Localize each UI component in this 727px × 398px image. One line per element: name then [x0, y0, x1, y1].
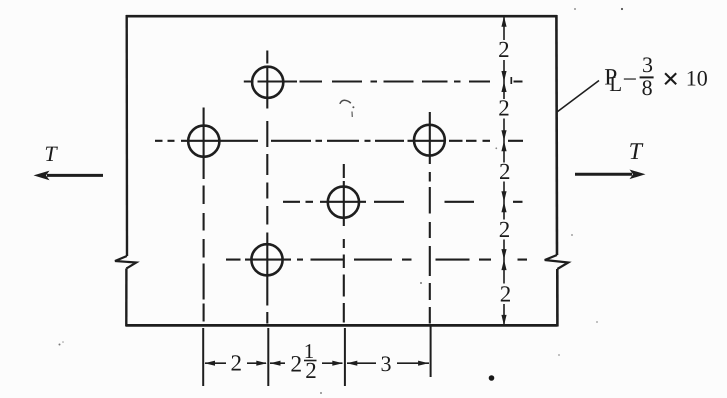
- hole 5 circle: [251, 244, 282, 275]
- hole 1 circle: [252, 67, 283, 98]
- plate outline top edge: [126, 15, 557, 18]
- right dim arrows at row 3: [501, 191, 506, 202]
- break symbol left edge: [115, 256, 136, 269]
- centerline horizontal through hole 1: [244, 80, 523, 82]
- svg-text:–: –: [623, 64, 636, 90]
- svg-text:T: T: [629, 139, 644, 165]
- plate outline left edge upper: [125, 15, 128, 256]
- stray squiggle tail dash: [351, 112, 353, 118]
- svg-text:2: 2: [498, 37, 510, 62]
- svg-text:3: 3: [381, 351, 392, 376]
- stray squiggle dot: [352, 106, 354, 108]
- right dimension line segments: [503, 16, 505, 325]
- centerline vertical column through hole 2: [203, 108, 205, 322]
- hole 4 circle: [328, 187, 359, 218]
- leader line to plate label: [558, 81, 600, 112]
- plate label PL - 3/8 x 10: [604, 52, 708, 100]
- svg-text:2: 2: [499, 159, 511, 184]
- small specks: [59, 344, 61, 346]
- centerline horizontal through hole 5: [226, 259, 527, 261]
- bottom dim arrows segment 2: [205, 361, 216, 366]
- svg-text:2: 2: [498, 96, 510, 121]
- right force arrow T: [575, 139, 646, 179]
- break symbol right edge: [545, 255, 569, 269]
- right dim arrow up to top edge: [501, 16, 506, 27]
- bottom dimension line segments: [205, 362, 429, 364]
- fraction bar of 1/2: [304, 360, 317, 362]
- svg-text:8: 8: [642, 75, 653, 100]
- svg-text:2: 2: [500, 282, 512, 307]
- multiplication sign: [665, 73, 676, 84]
- bottom label 2 1/2: [290, 339, 316, 383]
- right dimension labels 2 x5: [498, 37, 511, 307]
- svg-text:L: L: [609, 72, 622, 96]
- svg-text:2: 2: [231, 350, 243, 375]
- centerline horizontal through hole 4: [283, 201, 523, 203]
- centerline vertical column through hole 3: [429, 112, 431, 324]
- svg-text:3: 3: [642, 52, 653, 77]
- right dim arrows at row 2: [501, 130, 506, 141]
- plate outline right edge lower: [556, 269, 559, 327]
- stray dot bottom right: [489, 375, 495, 381]
- centerline vertical column through hole 4: [343, 164, 345, 323]
- left force arrow T: [34, 141, 104, 180]
- svg-text:10: 10: [686, 66, 708, 91]
- svg-text:2: 2: [305, 358, 317, 383]
- right dim arrows at row 1: [501, 71, 506, 82]
- right dim arrows at row 4: [501, 249, 506, 260]
- small tick right of dimension line row 1: [510, 77, 512, 84]
- plate outline bottom edge: [126, 324, 558, 327]
- plate outline right edge upper: [555, 15, 558, 255]
- bottom dim arrows segment 3: [347, 361, 358, 366]
- svg-text:2: 2: [290, 351, 302, 377]
- centerline horizontal through holes 2 and 3: [155, 140, 523, 142]
- svg-text:T: T: [44, 141, 58, 166]
- bottom dim arrows segment 2.5: [270, 361, 281, 366]
- bottom extension lines: [203, 325, 430, 386]
- centerline vertical column through holes 1 and 5: [266, 51, 268, 324]
- fraction bar of 3/8: [640, 76, 654, 78]
- plate outline left edge lower: [125, 269, 127, 327]
- stray squiggle mark: [340, 100, 351, 104]
- hole 3 circle: [414, 125, 445, 156]
- hole 2 circle: [188, 126, 219, 157]
- svg-text:2: 2: [499, 217, 511, 242]
- right dim arrow down to bottom edge: [501, 315, 506, 326]
